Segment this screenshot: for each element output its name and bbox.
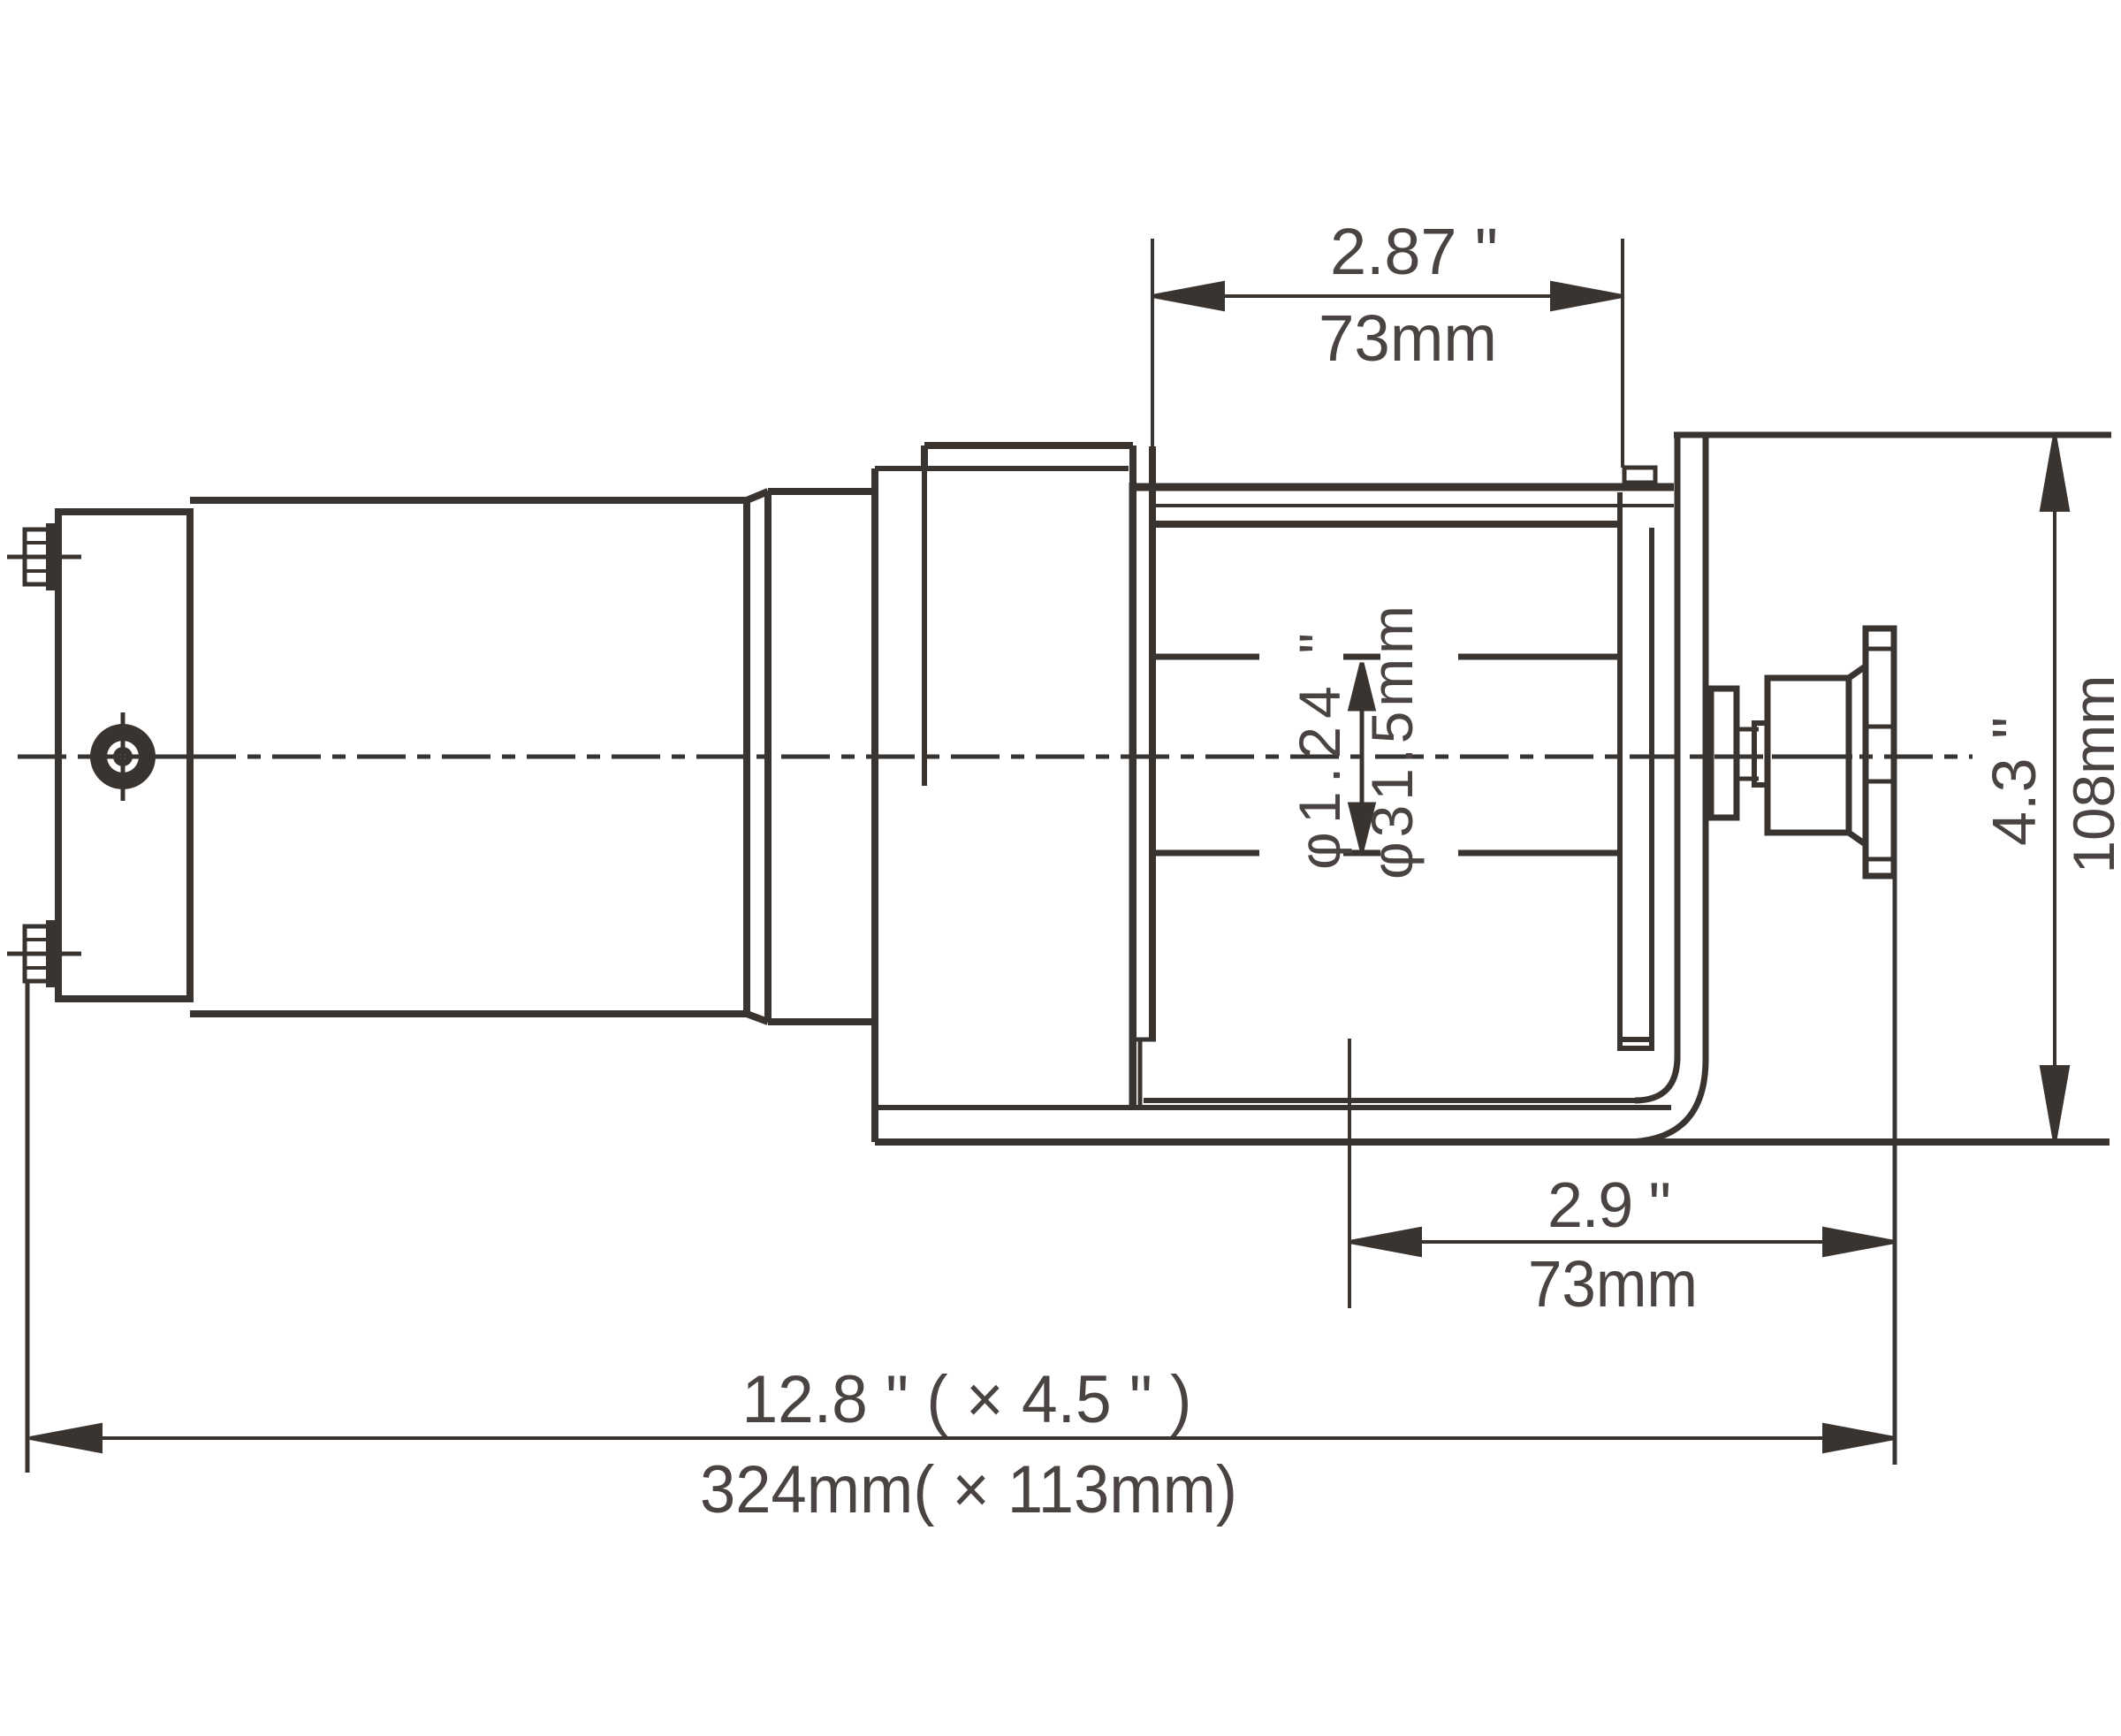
- clutch knob body: [1767, 666, 1866, 845]
- clutch flange disc: [1866, 628, 1894, 876]
- dim 4.3in/108mm right: dimension line: [2041, 435, 2068, 1142]
- top extension line to 108mm dimension: [1712, 432, 2111, 438]
- gearbox collar: [875, 468, 1129, 1142]
- drum right flange: [1620, 468, 1655, 1048]
- centerline (axis): [18, 755, 1973, 759]
- svg-text:73mm: 73mm: [1319, 301, 1497, 375]
- gearbox bottom edge: [878, 1105, 1671, 1110]
- frame base plate bottom: [875, 1138, 2110, 1146]
- motor end cap: [58, 512, 190, 999]
- dim 2.87in top: extension lines: [1151, 239, 1154, 446]
- gearbox body: [924, 445, 1133, 1108]
- motor end ring: [768, 491, 875, 1022]
- dim 2.87in top: dimension line: [1152, 283, 1623, 309]
- svg-text:φ1.24 ": φ1.24 ": [1287, 633, 1352, 870]
- svg-text:2.87 ": 2.87 ": [1330, 215, 1498, 288]
- left extension line (overall dim): [26, 979, 30, 1473]
- drum top line: [1155, 654, 1617, 660]
- svg-text:108mm: 108mm: [2061, 675, 2121, 874]
- frame base plate top surface: [1144, 1098, 1637, 1103]
- drum bottom line: [1155, 850, 1617, 857]
- dim 2.9in: dimension line: [1349, 1229, 1895, 1255]
- solid centerline through knob: [1772, 755, 1852, 759]
- clutch shaft: [1737, 723, 1767, 785]
- motor body (barrel): [190, 491, 768, 1022]
- tie bar top: [1133, 487, 1674, 524]
- bolt bottom: [7, 921, 81, 986]
- grease fitting on end cap: [90, 712, 217, 801]
- svg-text:73mm: 73mm: [1528, 1247, 1698, 1321]
- dim phi1.24 arrow: [1350, 663, 1373, 850]
- svg-text:4.3 ": 4.3 ": [1980, 717, 2049, 846]
- overall dim 12.8in: dimension line: [30, 1425, 1895, 1451]
- svg-text:2.9 ": 2.9 ": [1547, 1170, 1671, 1241]
- gearbox inner edge: [922, 468, 927, 786]
- right bracket plate: [1624, 435, 1712, 1142]
- svg-text:12.8 " ( × 4.5 " ): 12.8 " ( × 4.5 " ): [742, 1362, 1192, 1437]
- right extension line (2.9 and overall dims): [1893, 876, 1897, 1465]
- dim 2.9in: extension line: [1348, 1039, 1351, 1308]
- svg-text:324mm( × 113mm): 324mm( × 113mm): [700, 1452, 1237, 1527]
- left bracket plate: [1131, 446, 1156, 1108]
- bolt top: [7, 524, 81, 590]
- clutch hub boss: [1711, 689, 1737, 818]
